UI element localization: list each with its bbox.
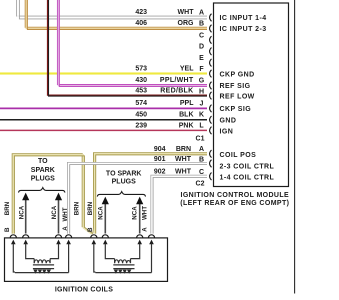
- svg-text:430: 430: [135, 77, 147, 84]
- svg-text:B: B: [199, 156, 204, 163]
- svg-text:450: 450: [135, 112, 147, 119]
- svg-text:A: A: [199, 146, 204, 153]
- svg-text:902: 902: [154, 168, 166, 175]
- svg-text:PPL: PPL: [180, 100, 194, 107]
- svg-text:SPARK: SPARK: [31, 167, 55, 174]
- svg-text:WHT: WHT: [175, 156, 192, 163]
- svg-text:C2: C2: [196, 181, 205, 188]
- svg-text:BLK: BLK: [179, 112, 193, 119]
- svg-text:IGNITION COILS: IGNITION COILS: [55, 286, 113, 293]
- svg-text:BRN: BRN: [176, 146, 191, 153]
- svg-text:NCA: NCA: [19, 205, 26, 219]
- svg-text:CKP SIG: CKP SIG: [220, 106, 252, 113]
- svg-text:B: B: [199, 21, 204, 28]
- svg-text:574: 574: [135, 100, 147, 107]
- svg-text:L: L: [199, 123, 204, 130]
- svg-text:PLUGS: PLUGS: [31, 176, 55, 183]
- svg-text:IC INPUT 2-3: IC INPUT 2-3: [220, 26, 267, 33]
- svg-text:IC INPUT 1-4: IC INPUT 1-4: [220, 15, 267, 22]
- svg-text:NCA: NCA: [97, 206, 104, 220]
- svg-text:K: K: [199, 112, 204, 119]
- svg-text:CKP GND: CKP GND: [220, 71, 255, 78]
- svg-text:406: 406: [135, 20, 147, 27]
- svg-text:GND: GND: [220, 117, 237, 124]
- svg-text:E: E: [199, 55, 204, 62]
- svg-text:A: A: [199, 10, 204, 17]
- svg-text:RED/BLK: RED/BLK: [160, 88, 193, 95]
- svg-text:904: 904: [154, 146, 166, 153]
- svg-text:C: C: [199, 169, 204, 176]
- svg-text:PNK: PNK: [179, 122, 194, 129]
- svg-text:COIL POS: COIL POS: [220, 152, 257, 159]
- svg-text:573: 573: [135, 66, 147, 73]
- svg-text:PPL/WHT: PPL/WHT: [160, 77, 194, 84]
- svg-text:F: F: [199, 66, 204, 73]
- svg-text:REF SIG: REF SIG: [220, 83, 251, 90]
- svg-text:NCA: NCA: [131, 206, 138, 220]
- svg-text:A: A: [142, 227, 149, 232]
- svg-text:B: B: [87, 227, 94, 232]
- svg-text:453: 453: [135, 88, 147, 95]
- svg-text:J: J: [200, 100, 204, 107]
- svg-text:B: B: [4, 227, 11, 232]
- svg-text:BRN: BRN: [74, 201, 81, 215]
- svg-text:YEL: YEL: [180, 66, 194, 73]
- svg-text:WHT: WHT: [142, 206, 149, 220]
- svg-text:A: A: [62, 226, 69, 231]
- svg-text:TO SPARK: TO SPARK: [106, 170, 142, 177]
- svg-text:IGNITION CONTROL MODULE: IGNITION CONTROL MODULE: [181, 192, 290, 199]
- svg-text:C: C: [199, 32, 204, 39]
- svg-text:TO: TO: [38, 158, 48, 165]
- svg-text:BRN: BRN: [4, 201, 11, 215]
- svg-text:WHT: WHT: [62, 207, 69, 221]
- svg-text:NCA: NCA: [51, 205, 58, 219]
- svg-text:WHT: WHT: [178, 9, 195, 16]
- svg-text:901: 901: [154, 156, 166, 163]
- svg-text:PLUGS: PLUGS: [112, 178, 136, 185]
- svg-text:(LEFT REAR OF ENG COMPT): (LEFT REAR OF ENG COMPT): [180, 200, 289, 207]
- svg-text:239: 239: [135, 122, 147, 129]
- svg-text:WHT: WHT: [175, 168, 192, 175]
- svg-text:ORG: ORG: [178, 20, 195, 27]
- svg-text:2-3 COIL CTRL: 2-3 COIL CTRL: [220, 163, 275, 170]
- svg-text:REF LOW: REF LOW: [220, 93, 255, 100]
- svg-text:G: G: [199, 77, 205, 84]
- svg-text:BRN: BRN: [87, 201, 94, 215]
- svg-text:H: H: [199, 88, 204, 95]
- svg-text:D: D: [199, 44, 204, 51]
- svg-text:C1: C1: [196, 136, 205, 143]
- svg-text:IGN: IGN: [220, 129, 234, 136]
- svg-text:423: 423: [135, 9, 147, 16]
- svg-text:1-4 COIL CTRL: 1-4 COIL CTRL: [220, 174, 275, 181]
